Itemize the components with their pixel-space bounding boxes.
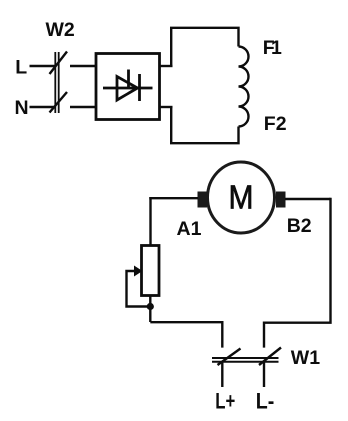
svg-text:W1: W1 [291, 347, 320, 369]
svg-text:M: M [229, 178, 254, 215]
wire right side down [264, 198, 331, 348]
connector W1 (plug-socket, two poles) [212, 348, 281, 366]
wire stub box to field loop (top) [160, 65, 173, 67]
svg-text:B2: B2 [287, 215, 312, 237]
svg-text:F2: F2 [264, 113, 287, 135]
wire bottom-left run to W1 [150, 322, 222, 347]
rectifier box [96, 54, 160, 120]
svg-text:L: L [15, 56, 27, 78]
wire W1 lower-left stub to L+ [221, 363, 223, 388]
wire field loop lower-left [171, 107, 238, 143]
wire field loop upper-left [171, 28, 238, 66]
svg-text:W2: W2 [46, 19, 75, 41]
thyristor symbol inside rectifier [103, 70, 153, 102]
svg-text:L-: L- [256, 389, 274, 414]
motor M1 [208, 162, 275, 233]
svg-text:A1: A1 [177, 218, 202, 240]
svg-text:N: N [15, 97, 29, 119]
wire N right segment [70, 106, 97, 108]
wire stub box to field loop (bottom) [160, 106, 173, 108]
wire N left segment [30, 106, 56, 108]
wire L right segment [70, 65, 97, 67]
motor brush terminal B2 (right) [276, 192, 286, 208]
inductor field winding F1-F2 [239, 47, 249, 127]
rheostat R1 body [142, 246, 160, 296]
svg-text:L+: L+ [215, 389, 235, 414]
svg-text:F1: F1 [263, 37, 282, 59]
wire motor left to corner [149, 197, 198, 199]
wire down to rheostat [149, 197, 151, 246]
wire W1 lower-right stub to L- [263, 363, 265, 388]
wire rheostat bottom [149, 296, 151, 323]
wire L left segment [30, 65, 56, 67]
wire motor right to corner [285, 198, 331, 200]
connector W2 (plug-socket, two poles) [50, 52, 68, 114]
rheostat wiper wire [127, 271, 151, 307]
motor brush terminal A1 (left) [198, 192, 208, 208]
junction dot [147, 303, 154, 310]
rheostat wiper arrowhead [134, 266, 143, 277]
